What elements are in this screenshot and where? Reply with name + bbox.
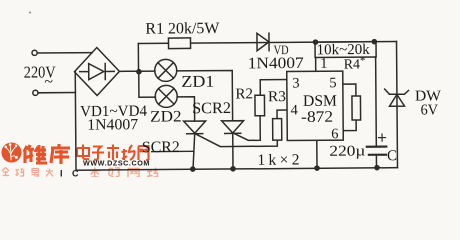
wire: top rail bbox=[138, 41, 396, 43]
svg-text:1: 1 bbox=[320, 56, 327, 72]
svg-text:1k×2: 1k×2 bbox=[257, 151, 299, 168]
resistor R3 bbox=[273, 119, 282, 141]
svg-text:C: C bbox=[387, 148, 397, 164]
svg-text:5: 5 bbox=[329, 75, 336, 91]
wire: left SCR cathode down to bottom rail bbox=[193, 133, 195, 169]
wire: right edge bbox=[396, 41, 399, 167]
svg-text:-872: -872 bbox=[301, 109, 333, 126]
watermark char 市 bbox=[107, 145, 119, 161]
svg-text:6V: 6V bbox=[420, 102, 438, 118]
svg-text:WWW.DZSC.COM: WWW.DZSC.COM bbox=[83, 159, 150, 168]
svg-text:3: 3 bbox=[292, 75, 299, 91]
svg-text:SCR2: SCR2 bbox=[142, 139, 180, 156]
wire: ZD1 to right SCR anode bbox=[177, 70, 233, 121]
svg-text:4: 4 bbox=[290, 102, 298, 118]
node dot bottom rail IC ground bbox=[314, 165, 320, 171]
wire: R3 bottom to left SCR gate bbox=[196, 133, 278, 146]
svg-text:DSM: DSM bbox=[303, 93, 337, 110]
svg-text:220µ: 220µ bbox=[329, 143, 366, 159]
svg-text:1N4007: 1N4007 bbox=[87, 116, 138, 133]
watermark char 库 bbox=[51, 144, 70, 164]
resistor R4 bbox=[352, 96, 361, 120]
svg-text:R4*: R4* bbox=[344, 55, 366, 73]
node dot bottom rail left SCR bbox=[190, 166, 196, 172]
wire: bottom terminal lead bbox=[38, 92, 75, 94]
wire: node down to ZD2 bbox=[139, 72, 156, 98]
node dot top rail at pin1 branch bbox=[313, 39, 319, 45]
resistor R1 bbox=[168, 38, 190, 49]
wire: bottom rail bbox=[76, 168, 397, 171]
watermark char 电 bbox=[77, 145, 89, 160]
wire: ZD2 to left SCR anode bbox=[177, 97, 194, 121]
wire: pin 3 to R2 top bbox=[260, 80, 288, 96]
wire: capacitor branch lower bbox=[375, 155, 377, 168]
wire: pin 6 to R4 bottom bbox=[343, 120, 356, 131]
wire: AC line from bridge left vertex down bbox=[74, 72, 77, 170]
watermark char 网 bbox=[139, 146, 149, 160]
node dot bottom rail right SCR bbox=[230, 166, 236, 172]
scan speck bbox=[29, 12, 31, 14]
svg-text:1N4007: 1N4007 bbox=[248, 55, 304, 72]
svg-text:~: ~ bbox=[44, 73, 53, 90]
terminal: 220V top bbox=[32, 50, 37, 55]
bridge rectifier VD1~VD4 diamond bbox=[74, 47, 119, 95]
svg-text:ZD2: ZD2 bbox=[150, 108, 182, 125]
wire: right SCR cathode down to bottom rail bbox=[232, 133, 234, 169]
node dot bridge output junction bbox=[136, 69, 142, 75]
capacitor C plates bbox=[367, 145, 386, 147]
watermark char 子 bbox=[92, 147, 104, 160]
svg-text:SCR2: SCR2 bbox=[192, 100, 231, 117]
capacitor + polarity mark bbox=[379, 134, 386, 141]
wire: AC line to left SCR cathode (under watermark) bbox=[76, 150, 194, 153]
wire: bridge out to node bbox=[119, 70, 138, 72]
IC U1 DSM-872 bbox=[287, 71, 344, 140]
node dot bottom rail capacitor bbox=[374, 165, 380, 171]
wire: R1 left drop bbox=[137, 44, 139, 72]
thyristor SCR2 left bbox=[184, 121, 206, 133]
wire: capacitor branch upper bbox=[375, 57, 378, 147]
thyristor SCR2 right bbox=[222, 121, 244, 133]
watermark char 场 bbox=[122, 145, 136, 160]
wire: pin 4 to R3 top bbox=[277, 110, 288, 119]
wire: top terminal lead bbox=[37, 52, 92, 54]
watermark logo circle bbox=[2, 143, 22, 163]
svg-text:6: 6 bbox=[331, 126, 338, 142]
wire: pin 1 bbox=[315, 57, 317, 71]
wire: node to ZD1 bbox=[139, 70, 155, 72]
svg-text:ZD1: ZD1 bbox=[181, 72, 214, 91]
terminal: 220V bottom bbox=[33, 90, 38, 95]
svg-text:R2: R2 bbox=[235, 86, 253, 102]
watermark char 维 bbox=[24, 145, 47, 163]
bridge inner diode bbox=[80, 70, 114, 72]
diode VD bbox=[257, 33, 269, 51]
svg-text:I: I bbox=[60, 169, 63, 178]
node dot top rail at capacitor branch bbox=[371, 39, 377, 45]
watermark bottom row 全球最大IC采购网站 bbox=[2, 168, 53, 177]
resistor R2 bbox=[255, 95, 265, 116]
zener diode DW bbox=[389, 94, 404, 106]
wire: IC ground drop bbox=[316, 140, 318, 168]
value label box 10k~20k bbox=[315, 42, 376, 58]
svg-text:R1 20k/5W: R1 20k/5W bbox=[145, 20, 220, 38]
lamp ZD2 bbox=[155, 85, 177, 107]
wire: R2 bottom to right SCR gate bbox=[235, 116, 261, 141]
svg-text:R3: R3 bbox=[268, 89, 286, 105]
wire: pin 5 to R4 top bbox=[343, 84, 356, 96]
lamp ZD1 bbox=[155, 59, 177, 81]
watermark background patch bbox=[78, 143, 151, 162]
